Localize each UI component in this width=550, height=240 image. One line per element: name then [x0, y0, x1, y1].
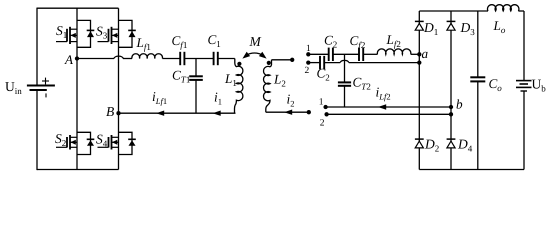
- transistor S1 (MOSFET with body diode): [69, 27, 71, 44]
- polarity dot L1: [237, 62, 241, 66]
- capacitor Co: [470, 76, 485, 78]
- wire - CT2 lower lead: [344, 86, 346, 107]
- wire - Co lower lead: [477, 81, 479, 169]
- inductor Lo: [488, 5, 519, 11]
- wire - bottom row 1 to node b: [326, 106, 451, 108]
- battery U_in positive plate: [27, 85, 55, 87]
- svg-text:1: 1: [306, 44, 311, 54]
- diode D3: [447, 20, 456, 22]
- wire - rectifier bottom rail: [419, 169, 524, 171]
- diode D1: [415, 20, 424, 22]
- battery U_in negative plate: [30, 89, 47, 91]
- inductor Lf1: [132, 54, 163, 59]
- capacitor Cf2: [358, 48, 360, 61]
- capacitor C2 (upper): [328, 48, 330, 61]
- inductor Lf2: [377, 49, 410, 54]
- battery Ub plates: [516, 80, 532, 82]
- wire - rectifier top rail: [419, 10, 488, 12]
- wire - throw1 to C2 upper: [308, 53, 328, 55]
- selector throw 1 terminal (top): [306, 52, 310, 56]
- wire crossover hop over CT2 lead: [340, 60, 349, 62]
- wire - CT1 lower lead: [195, 80, 197, 113]
- svg-text:2: 2: [305, 66, 310, 76]
- wire - inverter top rail: [37, 7, 119, 9]
- capacitor CT1: [189, 75, 203, 77]
- node B junction dot: [116, 111, 120, 115]
- capacitor Cf1: [179, 52, 181, 65]
- wire - bridge leg 2 (S3/S4): [118, 8, 120, 169]
- svg-text:A: A: [64, 52, 73, 67]
- selector throw 1 terminal (bottom): [323, 105, 327, 109]
- wire - Lo to right corner: [518, 10, 524, 12]
- wire - node A to crossover: [77, 58, 114, 60]
- transistor S4 (MOSFET with body diode): [111, 135, 113, 150]
- transistor S3 (MOSFET with body diode): [111, 27, 113, 44]
- inductor L2 (secondary coil): [264, 60, 272, 112]
- wire - right branch upper: [523, 11, 525, 81]
- svg-text:B: B: [106, 104, 114, 119]
- diode D2: [415, 138, 424, 140]
- wire - C1 to L1 corner: [218, 58, 235, 60]
- svg-text:2: 2: [320, 118, 325, 128]
- svg-text:b: b: [456, 97, 463, 112]
- battery U_in plus sign: [42, 80, 49, 82]
- node A junction dot: [75, 56, 79, 60]
- wire - rectifier branch b (D3/D4): [450, 11, 452, 170]
- capacitor C1: [213, 52, 215, 65]
- wire - bridge leg 1 (S1/S2): [76, 8, 78, 169]
- wire - node B to L1 bottom: [119, 112, 236, 114]
- inductor L1 (primary coil): [235, 59, 243, 114]
- wire - left source branch lower: [36, 90, 38, 170]
- wire - right branch lower: [523, 91, 525, 170]
- wire - L2 top to selector pole: [272, 59, 293, 61]
- wire - C2 lower to hop: [324, 62, 340, 64]
- wire - throw2 to C2 lower: [308, 62, 320, 64]
- wire - Lf1 to Cf1: [162, 58, 180, 60]
- wire - Cf2 to Lf2: [363, 53, 377, 55]
- wire - left source branch upper: [36, 8, 38, 86]
- battery U_in minus tick: [45, 93, 47, 97]
- junction dot row2 at b-branch: [449, 112, 453, 116]
- diode D4: [447, 138, 456, 140]
- wire - Cf1 to C1: [184, 58, 213, 60]
- wire - rectifier branch a (D1/D2): [418, 11, 420, 170]
- svg-text:a: a: [422, 46, 429, 61]
- M arrowhead right: [259, 52, 267, 59]
- current arrow iLf1: [156, 111, 164, 116]
- wire crossover hop over leg 2: [114, 56, 123, 58]
- transistor S2 (MOSFET with body diode): [69, 135, 71, 150]
- wire - Lf2 to node a: [411, 53, 420, 55]
- wire - C2 upper to CT2 junction: [333, 53, 359, 55]
- wire - CT1 upper lead: [195, 59, 197, 77]
- svg-text:1: 1: [319, 97, 324, 107]
- M arrowhead left: [242, 52, 250, 59]
- current arrow i2: [284, 110, 292, 115]
- node a dot: [417, 52, 421, 56]
- current arrow i1: [213, 111, 221, 116]
- wire - hop to Lf1: [123, 58, 132, 60]
- selector throw 2 terminal (bottom): [324, 112, 328, 116]
- capacitor C2 (lower): [319, 56, 321, 69]
- node b dot: [449, 105, 453, 109]
- wire - bottom row 2 to b-branch: [327, 113, 451, 115]
- mutual inductance M arc: [246, 53, 264, 55]
- wire - L2 bottom to selector pole: [266, 111, 309, 113]
- selector throw 2 terminal (top): [306, 60, 310, 64]
- polarity dot L2: [267, 61, 271, 65]
- junction dot row2 at a-branch: [417, 60, 421, 64]
- wire - hop to a-branch (row 2): [349, 62, 420, 64]
- selector pole terminal (top): [290, 58, 294, 62]
- capacitor CT2: [338, 81, 351, 83]
- wire - Co upper lead: [477, 11, 479, 77]
- svg-text:M: M: [249, 34, 262, 49]
- wire - CT2 upper lead: [344, 54, 346, 82]
- selector pole terminal (bottom): [307, 110, 311, 114]
- wire - inverter bottom rail: [37, 169, 119, 171]
- current arrow iLf2: [378, 104, 386, 109]
